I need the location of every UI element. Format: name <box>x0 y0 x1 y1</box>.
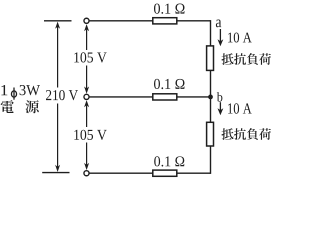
source label 電源 <box>1 100 39 113</box>
node b label <box>217 92 223 102</box>
dimension line 105 V upper <box>86 30 88 89</box>
load label 抵抗負荷 (lower) <box>221 128 270 140</box>
resistor R3 0.1 ohm (bottom line) <box>153 170 177 176</box>
dimension extension bar top <box>44 20 72 22</box>
load resistor lower (抵抗負荷) <box>207 122 214 146</box>
value label 0.1 ohm (top) <box>154 4 185 14</box>
node a label <box>216 20 221 28</box>
value label 0.1 ohm (middle) <box>154 79 185 89</box>
voltage label 210 V <box>46 90 78 100</box>
terminal circle middle <box>84 94 89 99</box>
current arrow upper 10 A <box>218 29 224 46</box>
load resistor upper (抵抗負荷) <box>207 46 214 71</box>
arrowhead down (210 V bottom) <box>55 165 60 172</box>
arrowhead up (210 V top) <box>55 22 60 29</box>
source label 1 phi 3W <box>1 85 7 95</box>
voltage label 105 V upper <box>74 52 106 62</box>
phi symbol <box>11 88 16 100</box>
load label 抵抗負荷 (upper) <box>221 53 270 65</box>
dimension line 105 V lower <box>86 106 88 166</box>
arrowhead up (105 V lower) <box>84 100 89 107</box>
voltage label 105 V lower <box>74 130 106 140</box>
current label 10 A (upper) <box>228 33 252 43</box>
terminal circle top <box>84 18 89 23</box>
wire top horizontal <box>89 20 210 22</box>
wire bottom horizontal <box>89 172 210 174</box>
arrowhead up (105 V upper) <box>84 24 89 31</box>
current label 10 A (lower) <box>228 103 252 113</box>
resistor R1 0.1 ohm (top line) <box>153 18 177 24</box>
resistor R2 0.1 ohm (middle line) <box>153 94 177 100</box>
arrowhead down (105 V lower) <box>84 163 89 170</box>
value label 0.1 ohm (bottom) <box>154 156 184 166</box>
wire middle horizontal <box>89 96 210 98</box>
dimension extension bar bottom <box>42 172 69 174</box>
current arrow lower 10 A <box>218 102 224 115</box>
node b junction dot <box>208 95 213 100</box>
wire right vertical <box>210 20 212 174</box>
arrowhead down (105 V upper) <box>84 87 89 94</box>
dimension line 210 V <box>57 27 59 168</box>
terminal circle bottom <box>84 171 89 176</box>
